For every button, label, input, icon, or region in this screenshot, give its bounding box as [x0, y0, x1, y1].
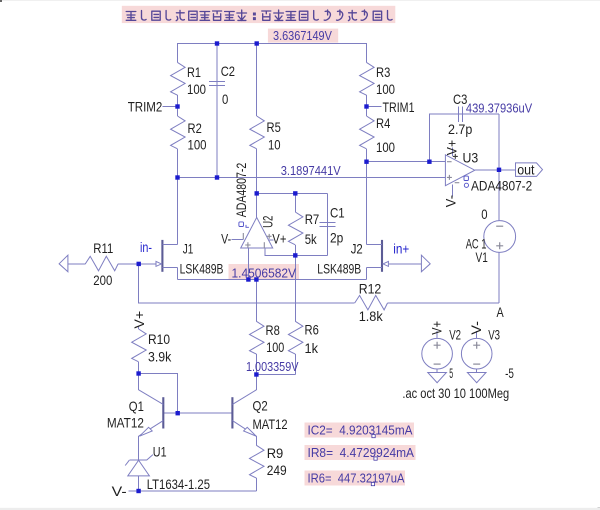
svg-text:R12: R12 — [359, 280, 382, 296]
svg-text:1.8k: 1.8k — [359, 308, 384, 324]
svg-text:R9: R9 — [267, 445, 284, 461]
svg-text:IC2= 4.9203145mA: IC2= 4.9203145mA — [308, 423, 414, 437]
svg-text:ADA4807-2: ADA4807-2 — [471, 178, 532, 194]
svg-text:2.7p: 2.7p — [448, 121, 472, 137]
svg-text:1.4506582V: 1.4506582V — [232, 266, 297, 280]
svg-text:100: 100 — [376, 81, 395, 97]
svg-text:ADA4807-2: ADA4807-2 — [233, 163, 249, 218]
svg-text:V-: V- — [221, 231, 231, 247]
svg-text:Q2: Q2 — [253, 398, 268, 414]
svg-text:V+: V+ — [429, 321, 445, 335]
svg-text:U3: U3 — [463, 150, 479, 166]
svg-text:V-: V- — [443, 195, 459, 208]
svg-text:5k: 5k — [305, 231, 318, 247]
svg-text:in+: in+ — [393, 240, 409, 256]
svg-text:TRIM2: TRIM2 — [128, 98, 163, 114]
svg-text:2p: 2p — [330, 230, 343, 246]
svg-text:V+: V+ — [443, 140, 459, 155]
svg-text:MAT12: MAT12 — [253, 416, 288, 432]
svg-text:in-: in- — [140, 239, 152, 255]
svg-text:V-: V- — [112, 483, 127, 499]
svg-text:200: 200 — [93, 272, 112, 288]
svg-text:C1: C1 — [330, 204, 345, 220]
svg-text:V1: V1 — [476, 249, 488, 265]
svg-text:A: A — [497, 304, 505, 320]
svg-text:R1: R1 — [187, 64, 201, 80]
svg-text:R5: R5 — [267, 119, 281, 135]
svg-text:3.6367149V: 3.6367149V — [273, 29, 332, 43]
svg-text:249: 249 — [267, 462, 287, 478]
svg-text:0: 0 — [222, 91, 228, 107]
svg-text:3.1897441V: 3.1897441V — [281, 164, 342, 178]
svg-text:R6: R6 — [305, 322, 319, 338]
svg-text:IR6= 447.32197uA: IR6= 447.32197uA — [308, 471, 406, 485]
svg-text:R8: R8 — [266, 322, 280, 338]
svg-text:10: 10 — [268, 137, 281, 153]
svg-text:3.9k: 3.9k — [148, 349, 172, 365]
svg-text:.ac oct 30 10 100Meg: .ac oct 30 10 100Meg — [402, 385, 509, 401]
svg-text:5: 5 — [449, 365, 453, 381]
svg-text:V+: V+ — [131, 311, 147, 329]
svg-text:100: 100 — [187, 81, 206, 97]
svg-text:MAT12: MAT12 — [107, 415, 144, 431]
svg-text:R3: R3 — [376, 64, 390, 80]
svg-text:LSK489B: LSK489B — [317, 260, 361, 276]
svg-text:V-: V- — [468, 321, 484, 335]
svg-text:LT1634-1.25: LT1634-1.25 — [147, 476, 210, 492]
svg-text:IR8= 4.4729924mA: IR8= 4.4729924mA — [308, 446, 415, 460]
svg-text:100: 100 — [266, 339, 284, 355]
svg-text:-5: -5 — [505, 365, 514, 381]
svg-text:0: 0 — [481, 206, 487, 222]
svg-text:R10: R10 — [148, 331, 170, 347]
svg-text:U1: U1 — [153, 444, 167, 460]
svg-text:Q1: Q1 — [129, 398, 144, 414]
svg-text:1.003359V: 1.003359V — [246, 360, 299, 374]
svg-text:LSK489B: LSK489B — [180, 260, 224, 276]
svg-text:C2: C2 — [221, 63, 235, 79]
svg-text:439.37936uV: 439.37936uV — [466, 102, 533, 116]
svg-text:V2: V2 — [449, 327, 461, 343]
svg-text:100: 100 — [188, 137, 207, 153]
svg-text:J1: J1 — [183, 240, 194, 256]
svg-text:TRIM1: TRIM1 — [383, 99, 415, 115]
svg-text:R4: R4 — [376, 115, 390, 131]
svg-text:J2: J2 — [351, 240, 363, 256]
svg-text:V3: V3 — [488, 327, 500, 343]
svg-text:1k: 1k — [305, 340, 319, 356]
svg-text:R7: R7 — [305, 211, 320, 227]
svg-text:out: out — [517, 161, 534, 177]
svg-text:V+: V+ — [272, 231, 286, 247]
svg-text:U2: U2 — [260, 215, 276, 227]
svg-text:R11: R11 — [93, 240, 113, 256]
svg-text:100: 100 — [376, 139, 395, 155]
svg-text:R2: R2 — [188, 120, 202, 136]
